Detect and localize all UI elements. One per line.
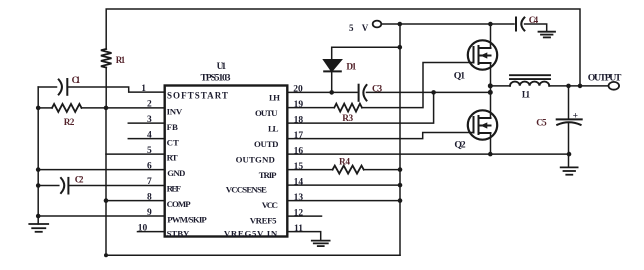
wire C3 to switch node (367, 91, 491, 93)
svg-text:SOFTSTART: SOFTSTART (167, 91, 229, 101)
ground left rail (29, 224, 48, 232)
wire pin2 row (38, 107, 52, 109)
svg-text:REF: REF (167, 184, 181, 194)
svg-text:L1: L1 (522, 90, 531, 100)
wire pin8 COMP row (106, 200, 165, 202)
svg-text:LH: LH (269, 93, 280, 103)
wire bottom bus (106, 254, 400, 256)
wire Q1 drain up (490, 24, 492, 48)
svg-text:TRIP: TRIP (259, 170, 277, 180)
capacitor C5 (568, 86, 570, 119)
svg-text:12: 12 (294, 208, 304, 218)
svg-text:VCC: VCC (262, 200, 278, 210)
svg-text:C4: C4 (529, 16, 539, 26)
wire C1 row (38, 86, 56, 88)
wire L1 to output (549, 85, 608, 87)
wire D1 to LH row (331, 71, 333, 92)
svg-text:18: 18 (294, 115, 304, 125)
svg-text:OUTU: OUTU (255, 108, 278, 118)
svg-text:U1: U1 (217, 62, 227, 72)
svg-text:PWM/SKIP: PWM/SKIP (167, 215, 207, 225)
wire switch node to Q2 drain (490, 86, 492, 118)
svg-text:Q1: Q1 (454, 71, 465, 82)
op-amp U1 box (165, 86, 288, 237)
svg-text:15: 15 (294, 162, 304, 172)
svg-text:OUTPUT: OUTPUT (588, 72, 622, 83)
svg-text:RT: RT (167, 153, 178, 163)
svg-text:19: 19 (294, 100, 304, 110)
svg-text:C5: C5 (536, 119, 547, 129)
diode D1 (324, 60, 341, 71)
wire pin16 OUTGND row (287, 153, 569, 155)
resistor R3 (334, 104, 362, 112)
wire pin4 stub (128, 138, 164, 140)
capacitor C4 (516, 18, 524, 31)
svg-text:14: 14 (294, 177, 304, 187)
svg-text:20: 20 (293, 84, 303, 94)
pin names right (224, 93, 280, 239)
pin names left (167, 91, 229, 239)
svg-text:VREG5V IN: VREG5V IN (224, 229, 278, 239)
capacitor C2 (61, 178, 68, 194)
wire pin20 LH row (287, 91, 357, 93)
svg-text:17: 17 (294, 131, 304, 141)
svg-text:VREF5: VREF5 (250, 216, 277, 226)
transistor Q1 (468, 40, 497, 69)
wire Q2 source down (490, 133, 492, 154)
wire pin14 row (287, 184, 400, 186)
svg-text:16: 16 (294, 146, 304, 156)
svg-text:CT: CT (167, 137, 179, 147)
svg-text:R2: R2 (64, 118, 75, 128)
svg-text:1: 1 (141, 84, 146, 94)
terminal OUTPUT (609, 82, 620, 90)
svg-text:+: + (573, 111, 578, 121)
svg-text:7: 7 (147, 177, 152, 187)
capacitor C3 (359, 85, 367, 101)
capacitor C1 (59, 79, 68, 95)
wire vertical INV-RT-COMP-bottom (105, 108, 107, 255)
wire switch node row (490, 85, 510, 87)
svg-text:6: 6 (147, 162, 152, 172)
svg-text:GND: GND (167, 168, 185, 178)
ground output (561, 167, 578, 174)
svg-text:VCCSENSE: VCCSENSE (226, 185, 267, 195)
svg-text:COMP: COMP (167, 199, 192, 209)
wire 5V down bus (399, 24, 401, 255)
svg-text:INV: INV (167, 106, 183, 116)
svg-text:11: 11 (294, 224, 303, 234)
svg-text:5: 5 (147, 146, 152, 156)
svg-text:TPS5103: TPS5103 (201, 72, 231, 83)
wire pin9 PWM row (38, 215, 165, 217)
wire pin18 LL row (287, 92, 433, 123)
svg-text:OUTGND: OUTGND (236, 155, 275, 165)
resistor R4 (333, 166, 364, 174)
wire pin5 RT (106, 153, 165, 155)
wire 5V row (382, 23, 515, 25)
svg-text:2: 2 (147, 100, 152, 110)
svg-text:R3: R3 (342, 114, 353, 124)
svg-text:5: 5 (349, 23, 354, 33)
svg-text:LL: LL (268, 124, 279, 134)
svg-text:D1: D1 (346, 62, 356, 72)
svg-text:10: 10 (138, 224, 148, 234)
wire top feedback (106, 9, 580, 86)
svg-text:C1: C1 (72, 76, 81, 86)
wire pin3 stub (128, 122, 164, 124)
svg-text:C2: C2 (75, 176, 84, 186)
svg-text:4: 4 (147, 131, 152, 141)
resistor R1 (101, 49, 112, 68)
inductor L1 (510, 75, 550, 86)
resistor R2 (52, 104, 82, 112)
wire pin12 stub (287, 215, 321, 217)
svg-text:9: 9 (147, 208, 152, 218)
transistor Q2 (468, 110, 497, 139)
ground C4 (539, 32, 556, 38)
svg-text:OUTD: OUTD (254, 139, 279, 149)
pin numbers right (293, 84, 303, 234)
wire pin7 REF row (38, 185, 59, 187)
wire C4 to ground (525, 24, 547, 32)
svg-text:13: 13 (294, 193, 304, 203)
wire pin10 stub (138, 231, 165, 233)
svg-text:STBY: STBY (167, 229, 190, 239)
svg-text:C3: C3 (372, 84, 383, 94)
svg-text:FB: FB (167, 122, 178, 132)
wire pin13 row (287, 200, 400, 202)
svg-text:Q2: Q2 (454, 140, 465, 151)
wire pin17 OUTD row (287, 133, 473, 139)
svg-text:R4: R4 (339, 157, 350, 167)
svg-text:V: V (362, 23, 369, 33)
svg-text:3: 3 (147, 115, 152, 125)
wire pin15 TRIP row (287, 169, 332, 171)
wire pin19 OUTU row (287, 107, 334, 109)
terminal 5V (373, 21, 382, 28)
wire left rail (37, 87, 39, 224)
wire R1 bottom to INV row (105, 68, 107, 108)
svg-text:R1: R1 (116, 55, 126, 65)
svg-text:8: 8 (147, 193, 152, 203)
ground pin11 (312, 241, 330, 247)
wire C5 down to ground (568, 124, 570, 168)
wire D1 branch top (332, 47, 400, 60)
wire pin11 to ground (287, 232, 320, 241)
wire pin6 GND row (38, 169, 165, 171)
wire Q1 source to switch node (490, 63, 492, 86)
pin numbers left (138, 84, 152, 234)
